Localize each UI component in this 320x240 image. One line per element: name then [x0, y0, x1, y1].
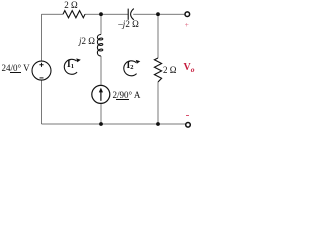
label I1 (mesh current 1): [67, 60, 74, 70]
voltage source 24∠0° V (circle): [32, 61, 51, 80]
inductor j2Ω (coil): [97, 35, 102, 57]
label + (output polarity top, red): [185, 20, 189, 29]
terminal bottom-right (open circle): [186, 123, 191, 128]
resistor 2Ω (right vertical): [154, 58, 161, 82]
wire bottom horizontal: [42, 123, 186, 125]
junction dot bottom middle node: [99, 122, 103, 126]
capacitor -j2Ω right plate (curved): [131, 9, 134, 20]
wire middle branch below current source: [100, 103, 102, 124]
current source arrow (up): [100, 92, 102, 101]
voltage source minus sign: [40, 77, 44, 79]
angle underline (24∠0°): [10, 71, 22, 74]
label 2∠90° A (current source value): [113, 90, 141, 100]
wire right branch upper (node to resistor): [157, 14, 159, 58]
junction dot top middle node: [99, 12, 103, 16]
angle underline (2∠90°): [116, 98, 129, 101]
wire left vertical (below source): [41, 80, 43, 124]
voltage source plus sign: [39, 63, 43, 67]
wire top segment capacitor to top terminal: [133, 13, 184, 15]
wire top segment between resistor and capacitor: [85, 13, 128, 15]
label I2 (mesh current 2): [127, 61, 134, 71]
capacitor -j2Ω left plate: [127, 9, 129, 20]
wire middle branch between inductor and current source: [100, 56, 102, 86]
label -j2 Ω (capacitor value): [118, 19, 138, 29]
mesh current I2 arrow arc: [124, 61, 137, 76]
wire left vertical (top of source): [41, 14, 43, 61]
label 24∠0° V (source value): [2, 63, 30, 73]
label 2 Ω (right resistor value): [163, 65, 176, 75]
wire middle branch upper (node to inductor): [100, 14, 102, 34]
mesh current I1 arrow arc: [64, 59, 77, 74]
label 2 Ω (top resistor value): [55, 0, 87, 10]
current source 2∠90° A (circle): [92, 85, 110, 103]
label Vo (output voltage, red): [184, 62, 195, 73]
wire right branch lower (resistor to bottom): [157, 82, 159, 124]
label - (output polarity bottom, red): [186, 115, 189, 116]
resistor 2Ω (top horizontal): [63, 11, 85, 18]
junction dot top right node: [156, 12, 160, 16]
junction dot bottom right node: [156, 122, 160, 126]
terminal top-right (open circle): [185, 12, 190, 17]
label j2 Ω (inductor value): [79, 36, 95, 46]
wire top-left horizontal segment: [42, 13, 64, 15]
